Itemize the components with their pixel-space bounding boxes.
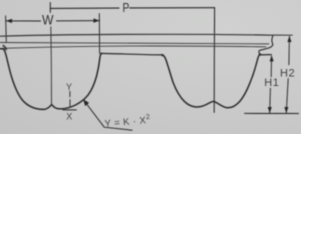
- dimension P: dimension line: [50, 7, 214, 10]
- X axis tick: [63, 109, 76, 111]
- dimension P: right extension line down through second tooth: [213, 8, 215, 113]
- dimension H2: top arrowhead: [287, 36, 291, 42]
- bottom land between tooth spaces: [101, 53, 162, 55]
- dimension W: left extension line: [5, 16, 8, 42]
- dimension P: left extension line down to first tooth center: [50, 27, 53, 105]
- tooth root reference line: [0, 46, 266, 48]
- belt top surface line: [0, 34, 273, 36]
- tooth tip extension line (bottom): [245, 112, 299, 114]
- dimension W: right extension line: [98, 14, 100, 54]
- Y axis dashed line: [69, 91, 71, 106]
- dimension W: dimension line with gap for label: [6, 20, 100, 22]
- dimension P: left tick: [49, 3, 51, 13]
- leader line from formula to tooth flank: [84, 100, 132, 130]
- paper background: [0, 0, 301, 134]
- H2 top extension line from belt top: [274, 34, 293, 36]
- bottom land at right broken end: [259, 54, 271, 56]
- dimension H2: bottom arrowhead: [284, 107, 288, 113]
- dimension H1: vertical line with gap for label: [270, 56, 272, 113]
- break (tear) line at right end of belt: [259, 35, 273, 54]
- dimension W: left arrowhead: [6, 19, 12, 23]
- dimension H2: vertical line with gap for label: [286, 36, 289, 112]
- leader arrowhead: [83, 99, 89, 106]
- dimension H1: bottom arrowhead: [268, 107, 272, 113]
- pitch line: [0, 43, 269, 44]
- fillet knots at land corners: [100, 53, 102, 55]
- tooth space 1: left flank, parabolic floor with centre cusp, right flank: [0, 49, 102, 110]
- tooth space 2: left flank, parabolic floor with centre cusp, right flank: [162, 55, 260, 108]
- dimension W: right arrowhead: [94, 18, 100, 22]
- fillet knot where left flank meets root line: [3, 46, 6, 50]
- dimension H1: top arrowhead: [270, 55, 274, 61]
